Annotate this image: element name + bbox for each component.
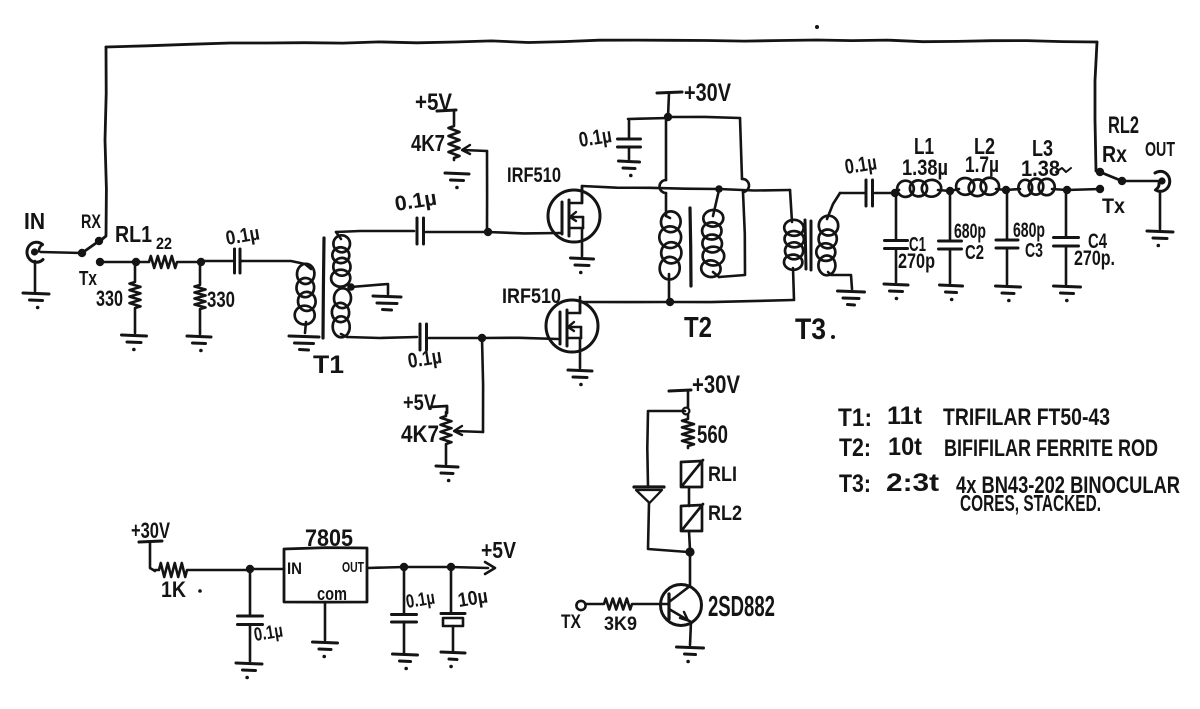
- core T1 ferrite line: [323, 238, 324, 338]
- connector OUT jack: [1155, 171, 1170, 191]
- wire +30V left branch to T2 winding1 (hop over drain wire): [665, 117, 668, 180]
- svg-text:IN: IN: [24, 208, 45, 234]
- svg-text:T3: T3: [795, 313, 826, 346]
- svg-text:3K9: 3K9: [604, 614, 637, 635]
- wire upper gate junction to IRF510 gate: [488, 232, 560, 233]
- svg-text:Tx: Tx: [79, 268, 97, 290]
- inductor L1: [895, 179, 950, 197]
- svg-text:2SD882: 2SD882: [708, 591, 775, 623]
- core T2 ferrite rod: [690, 208, 691, 286]
- svg-text:IRF510: IRF510: [507, 164, 561, 187]
- wire +30V down to 1K: [150, 543, 155, 571]
- wire upper cap to gate junction: [426, 231, 488, 234]
- wire 7805 OUT rail: [367, 567, 488, 568]
- svg-text:OUT: OUT: [342, 559, 364, 576]
- transformer T3 secondary: [816, 193, 852, 289]
- transformer T1 secondary upper half: [330, 232, 351, 288]
- svg-text:10µ: 10µ: [456, 586, 489, 612]
- wire Q3 emitter to ground: [690, 622, 691, 645]
- node switch RL1 pole: [78, 249, 86, 257]
- mosfet Q2 IRF510 lower: [546, 297, 598, 352]
- wire Q1 drain up: [581, 186, 584, 203]
- arrowhead +5V rail: [485, 562, 495, 574]
- node regulator input junction: [246, 565, 254, 573]
- svg-text:com: com: [317, 584, 347, 604]
- svg-text:+30V: +30V: [684, 79, 731, 107]
- ground T2 bypass cap: [619, 161, 640, 177]
- svg-text:11t: 11t: [887, 402, 923, 430]
- inductor L3: [1006, 178, 1067, 196]
- capacitor C1 270p: [885, 193, 908, 282]
- wire Q1 source to ground: [581, 228, 584, 256]
- node lower gate junction: [478, 334, 486, 342]
- relay coil RL2 box: [681, 504, 703, 531]
- ground 7805 com: [313, 642, 338, 658]
- svg-text:+30V: +30V: [692, 371, 740, 399]
- node A junction 330/22: [132, 258, 140, 266]
- wiper arrow lower: [454, 426, 462, 435]
- wire RL1 to RL2 coil: [688, 487, 691, 506]
- diode D1 flyback: [634, 411, 688, 552]
- svg-text:RL2: RL2: [708, 502, 742, 525]
- svg-text:330: 330: [96, 286, 123, 311]
- node collector junction: [685, 547, 694, 556]
- svg-text:IN: IN: [287, 559, 302, 578]
- supply +30V bar relay driver: [669, 390, 691, 391]
- period after 1K: [198, 589, 202, 593]
- ground regulator input cap: [236, 663, 262, 679]
- svg-text:1K: 1K: [161, 577, 186, 602]
- wire IN jack to ground: [34, 261, 37, 291]
- stray ink dot above top wire: [815, 25, 819, 29]
- node loop junction diode/560: [683, 408, 690, 415]
- ground C1: [884, 284, 908, 300]
- ground IN jack: [23, 293, 49, 309]
- svg-text:RX: RX: [81, 212, 101, 233]
- svg-text:Tx: Tx: [1102, 195, 1125, 218]
- wire filter node 4 to RL2 Tx contact: [1067, 189, 1100, 190]
- svg-text:+5V: +5V: [403, 390, 436, 415]
- wire Q2 drain up: [579, 302, 582, 313]
- ground T1 primary: [289, 336, 319, 350]
- node rail junction 0.1u: [400, 563, 408, 571]
- resistor 1K: [155, 563, 250, 577]
- svg-text:560: 560: [697, 421, 728, 449]
- ground Q3 emitter: [677, 647, 704, 663]
- wire T1 secondary top to upper gate cap: [336, 231, 414, 232]
- svg-text:270p: 270p: [898, 250, 935, 273]
- ground Q1 source: [571, 258, 594, 274]
- ground C2: [940, 285, 963, 301]
- node filter 4: [1063, 186, 1071, 194]
- svg-text:C3: C3: [1025, 240, 1043, 262]
- ground T3 secondary: [838, 291, 865, 305]
- svg-text:330: 330: [207, 287, 235, 312]
- transformer T1 primary winding: [295, 263, 317, 333]
- wire top feedback run: [106, 40, 1097, 47]
- wire +5V bar lower: [430, 406, 447, 413]
- wire junction to 7805 IN: [250, 568, 284, 571]
- wire +30V down to junction: [668, 93, 669, 117]
- wire +30V junction to bypass cap: [628, 118, 668, 119]
- capacitor 0.1u regulator output: [392, 567, 417, 653]
- ground C3: [996, 286, 1021, 302]
- svg-text:+5V: +5V: [481, 537, 517, 563]
- node T2 winding1 bottom junction: [666, 298, 674, 306]
- transformer T2 winding 1: [658, 210, 682, 302]
- wire lower wiper vertical to gate junction: [482, 338, 483, 432]
- ground 10u cap: [441, 652, 465, 668]
- svg-text:+30V: +30V: [131, 518, 170, 543]
- terminal Tx drive input: [576, 601, 585, 610]
- ground 330 second: [187, 336, 211, 352]
- wiper 4K7 lower: [455, 431, 483, 432]
- ground regulator output cap: [393, 654, 418, 670]
- core T3 line 2: [810, 221, 813, 270]
- svg-text:680p: 680p: [954, 220, 986, 243]
- connector IN jack: [27, 242, 43, 262]
- svg-text:0.1µ: 0.1µ: [404, 588, 436, 613]
- wire +30V junction to right branch: [668, 117, 740, 118]
- svg-text:TRIFILAR FT50-43: TRIFILAR FT50-43: [943, 404, 1110, 431]
- switch RL2 arm (Rx position): [1100, 172, 1122, 181]
- node RL1 Tx contact: [96, 258, 104, 266]
- svg-text:1.7µ: 1.7µ: [965, 152, 999, 177]
- svg-text:680p: 680p: [1013, 219, 1045, 242]
- resistor 330 second: [195, 263, 206, 334]
- transformer T1 secondary lower half: [331, 288, 352, 338]
- trimmer 4K7 lower: [441, 412, 452, 464]
- ground Q2 source: [568, 370, 592, 386]
- ground 4K7 upper: [445, 173, 469, 189]
- mosfet Q1 IRF510 upper: [548, 187, 600, 242]
- wiper arrow upper: [462, 145, 470, 154]
- node upper gate junction: [484, 228, 492, 236]
- wire upper drain run Q1 to T3: [582, 186, 790, 191]
- svg-text:T3:: T3:: [839, 470, 871, 498]
- capacitor 0.1u input: [201, 249, 242, 273]
- wire RL2 coil to collector node: [689, 531, 690, 550]
- ground OUT jack: [1147, 231, 1173, 247]
- capacitor 0.1u lower gate: [420, 324, 427, 350]
- resistor 3K9: [586, 599, 668, 610]
- supply +30V bar at T2: [657, 92, 682, 93]
- svg-text:T1:: T1:: [838, 404, 872, 432]
- svg-text:10t: 10t: [888, 433, 923, 461]
- svg-text:OUT: OUT: [1145, 139, 1175, 161]
- switch RL1 arm (Rx position): [82, 241, 99, 253]
- resistor 22: [136, 256, 201, 268]
- wire output cap to filter node 1: [875, 192, 895, 195]
- wire Q2 source to ground: [579, 338, 582, 368]
- svg-text:2:3t: 2:3t: [886, 469, 940, 497]
- capacitor 0.1u output: [840, 180, 873, 206]
- ground C4: [1054, 286, 1081, 302]
- wire T1 center tap to ground: [351, 284, 388, 294]
- wire left vertical from top to RL1 Rx contact: [100, 47, 106, 241]
- node filter 3: [1002, 186, 1010, 194]
- capacitor 0.1u regulator input: [238, 569, 263, 661]
- svg-text:BIFIFILAR FERRITE ROD: BIFIFILAR FERRITE ROD: [944, 435, 1158, 462]
- ground T1 center tap: [373, 296, 401, 310]
- svg-text:7805: 7805: [305, 525, 353, 552]
- transformer T2 winding 2: [700, 190, 724, 278]
- resistor 560: [682, 414, 694, 448]
- svg-text:1.38µ: 1.38µ: [902, 155, 948, 180]
- wire RL2 pole to OUT jack: [1122, 180, 1161, 183]
- capacitor 0.1u T2 bypass: [618, 119, 641, 159]
- wire +30V right branch down to T2 winding2 bottom (hop over drain wire): [740, 118, 742, 179]
- svg-text:4K7: 4K7: [401, 421, 439, 448]
- core T3 line 1: [805, 220, 806, 269]
- svg-text:22: 22: [156, 234, 172, 253]
- wire RL1 Tx contact to node A: [100, 261, 136, 264]
- svg-text:TX: TX: [561, 612, 581, 633]
- svg-text:T1: T1: [313, 351, 344, 379]
- trimmer 4K7 upper: [449, 112, 460, 160]
- node RL1 Rx contact: [95, 237, 103, 245]
- ground 4K7 lower: [436, 466, 458, 482]
- svg-text:T2:: T2:: [839, 434, 871, 462]
- node filter 2: [946, 187, 954, 195]
- wiper 4K7 upper to gate vertical: [463, 150, 487, 151]
- capacitor C2 680p: [939, 191, 962, 283]
- node RL2 pole: [1118, 177, 1126, 185]
- inductor L2: [950, 177, 1006, 197]
- resistor 330 first: [130, 264, 141, 333]
- wire collector node to Q3: [689, 552, 692, 586]
- squiggle after 1.38: [1056, 168, 1071, 172]
- node filter 1: [891, 189, 899, 197]
- wire T1 secondary bottom to lower gate cap: [347, 337, 417, 338]
- regulator U1 7805 box: [284, 548, 367, 603]
- capacitor C4 270p: [1054, 190, 1079, 284]
- node T2 winding2 top junction: [715, 185, 723, 193]
- wire lower cap to gate junction: [429, 337, 482, 340]
- svg-text:RL1: RL1: [115, 221, 152, 247]
- svg-text:0.1µ: 0.1µ: [252, 621, 284, 646]
- svg-text:1.38: 1.38: [1021, 156, 1060, 181]
- svg-text:RL2: RL2: [1108, 112, 1139, 139]
- node rail junction 10u: [447, 563, 455, 571]
- svg-text:+5V: +5V: [415, 89, 452, 116]
- wire IN jack to switch pole: [41, 252, 82, 253]
- wire +5V bar upper: [437, 110, 456, 111]
- svg-text:IRF510: IRF510: [502, 285, 561, 308]
- svg-text:RLI: RLI: [708, 463, 737, 486]
- svg-text:270p.: 270p.: [1074, 247, 1115, 270]
- wire OUT jack to ground: [1159, 191, 1162, 229]
- node +30V T2 junction: [664, 113, 672, 121]
- node B junction 22/330: [197, 258, 205, 266]
- ground 330 first: [122, 335, 147, 351]
- wire cap to T1 primary: [242, 261, 311, 269]
- svg-text:Rx: Rx: [1102, 141, 1127, 167]
- wire lower gate junction to IRF510 gate: [482, 338, 558, 339]
- transistor Q3 2SD882: [661, 585, 702, 626]
- capacitor 10u electrolytic: [441, 567, 465, 651]
- node RL2 Rx contact: [1096, 168, 1104, 176]
- node T1 center tap: [347, 283, 355, 291]
- svg-text:T2: T2: [684, 312, 712, 344]
- wire right vertical from top to RL2 Rx contact: [1095, 42, 1097, 171]
- wire 7805 com to ground: [324, 602, 327, 640]
- supply +30V bar regulator: [139, 541, 162, 542]
- period after T3: [831, 335, 835, 339]
- relay coil RL1 box: [681, 460, 703, 487]
- svg-text:CORES, STACKED.: CORES, STACKED.: [960, 490, 1101, 516]
- transformer T3 primary: [784, 190, 805, 300]
- svg-text:C2: C2: [965, 242, 984, 264]
- wire lower drain run Q2 to T3: [580, 300, 793, 302]
- node RL2 Tx contact: [1096, 185, 1104, 193]
- wire upper wiper vertical to gate junction: [486, 151, 489, 232]
- capacitor 0.1u upper gate: [417, 218, 424, 244]
- svg-text:4K7: 4K7: [411, 130, 445, 156]
- capacitor C3 680p: [996, 190, 1018, 284]
- wire +30V down to loop node: [687, 392, 690, 407]
